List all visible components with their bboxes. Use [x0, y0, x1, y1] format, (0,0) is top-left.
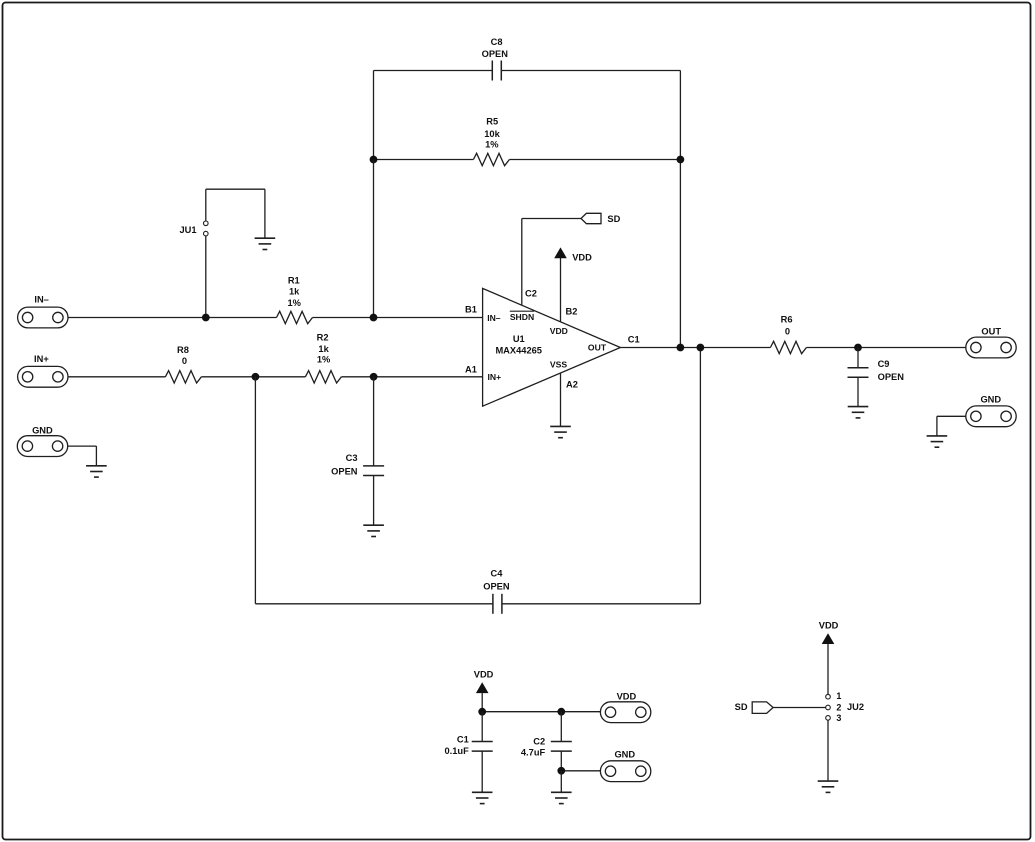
wire feedback right vertical: [679, 71, 681, 348]
resistor R8: [165, 345, 201, 383]
svg-text:A2: A2: [566, 379, 578, 389]
wire JU1 to IN- net: [205, 236, 207, 318]
wire C4 bottom left segment: [255, 603, 493, 605]
pin A1 label: [465, 365, 477, 375]
svg-text:R1: R1: [288, 276, 300, 286]
wire VDD arrow to rail: [481, 693, 483, 712]
power VDD op-amp: [554, 247, 592, 262]
wire R1 to op-amp IN-: [313, 317, 483, 319]
jumper JU2 pin 2: [826, 702, 842, 712]
connector OUT: [966, 327, 1016, 358]
wire IN- to R1: [68, 317, 277, 319]
ground JU2: [818, 781, 839, 792]
jumper JU1 pin 1: [204, 189, 209, 225]
flag SD (JU2): [735, 702, 773, 714]
svg-text:C4: C4: [491, 569, 504, 579]
svg-text:2: 2: [836, 702, 841, 712]
svg-text:A1: A1: [465, 365, 477, 375]
svg-text:10k: 10k: [484, 129, 500, 139]
wire VDD to JU2 pin 1: [827, 644, 829, 694]
node junction R5 right: [677, 156, 685, 164]
pin A2 label: [566, 379, 578, 389]
connector IN-: [18, 295, 68, 328]
svg-text:C1: C1: [628, 334, 640, 344]
connector VDD: [600, 692, 650, 723]
svg-text:JU1: JU1: [179, 225, 196, 235]
svg-text:R2: R2: [317, 333, 329, 343]
svg-text:OUT: OUT: [588, 343, 607, 353]
wire rail to C1: [481, 712, 483, 742]
wire OUT to C9: [857, 348, 859, 368]
node junction C2/rail: [557, 708, 565, 716]
svg-text:GND: GND: [32, 426, 53, 436]
pin B1 label: [465, 304, 477, 314]
wire R8 to R2: [201, 376, 305, 378]
capacitor C1: [445, 735, 493, 757]
svg-text:R6: R6: [781, 314, 793, 324]
svg-text:IN–: IN–: [487, 313, 501, 323]
svg-text:JU2: JU2: [847, 702, 864, 712]
flag SD (SHDN): [581, 213, 621, 224]
svg-text:0.1uF: 0.1uF: [445, 746, 470, 756]
connector GND (output side): [966, 394, 1016, 426]
wire VDD pin B2: [560, 258, 562, 322]
node junction R8/C4: [252, 373, 260, 381]
wire VSS pin A2: [560, 373, 562, 426]
wire C8 top left segment: [374, 70, 493, 72]
connector GND (input side): [17, 426, 67, 457]
wire R5 right lead: [509, 159, 680, 161]
ground output GND: [927, 436, 948, 447]
node junction JU1/IN-: [202, 314, 210, 322]
svg-text:4.7uF: 4.7uF: [521, 748, 546, 758]
svg-text:C9: C9: [878, 359, 890, 369]
wire C4 left vertical: [254, 377, 256, 604]
node junction C4/OUT: [697, 344, 705, 352]
svg-text:SHDN: SHDN: [510, 312, 534, 322]
node junction C3/IN+: [370, 373, 378, 381]
svg-text:VSS: VSS: [550, 359, 567, 369]
svg-text:1: 1: [836, 691, 841, 701]
wire C8 top right segment: [501, 70, 680, 72]
ground input GND: [86, 466, 107, 477]
jumper JU2 pin 1: [826, 691, 842, 701]
wire op-amp OUT to R6: [620, 347, 770, 349]
svg-text:VDD: VDD: [474, 670, 494, 680]
svg-text:SD: SD: [735, 702, 748, 712]
power VDD supply: [474, 670, 494, 693]
wire C2 to GND link: [561, 751, 600, 771]
wire C9 to ground: [857, 377, 859, 406]
svg-text:U1: U1: [513, 334, 525, 344]
svg-text:SD: SD: [607, 214, 620, 224]
svg-text:B2: B2: [566, 306, 578, 316]
pin C2 label: [525, 288, 537, 298]
capacitor C4: [483, 569, 510, 614]
resistor R5: [473, 117, 509, 166]
svg-text:0: 0: [182, 356, 187, 366]
wire JU1 top: [206, 188, 265, 190]
resistor R1: [277, 276, 313, 324]
svg-text:MAX44265: MAX44265: [495, 346, 542, 356]
svg-text:GND: GND: [614, 750, 635, 760]
wire IN+ to C3: [373, 377, 375, 466]
svg-text:IN+: IN+: [34, 354, 49, 364]
ground C9: [848, 407, 869, 418]
connector IN+: [18, 354, 68, 387]
svg-text:0: 0: [785, 326, 790, 336]
wire C4 bottom right segment: [502, 603, 701, 605]
power VDD JU2: [819, 621, 839, 645]
svg-text:C2: C2: [525, 288, 537, 298]
svg-text:1%: 1%: [287, 298, 301, 308]
svg-text:1%: 1%: [317, 355, 331, 365]
svg-text:VDD: VDD: [819, 621, 839, 631]
capacitor C3: [331, 453, 384, 477]
ground VSS: [550, 426, 571, 437]
svg-text:1k: 1k: [318, 344, 329, 354]
svg-text:1%: 1%: [485, 140, 499, 150]
wire R6 to OUT connector: [806, 347, 965, 349]
wire IN+ to R8: [68, 376, 165, 378]
connector GND (supply side): [600, 750, 650, 782]
wire feedback left vertical lower: [373, 160, 375, 318]
jumper JU2 pin 3: [826, 713, 842, 723]
resistor R6: [770, 314, 806, 353]
wire feedback left vertical upper: [373, 71, 375, 160]
svg-text:OUT: OUT: [981, 327, 1001, 337]
node junction R5 left: [370, 156, 378, 164]
wire supply rail: [482, 711, 600, 713]
wire JU2 pin 3 to ground: [827, 720, 829, 781]
ground C2: [551, 792, 572, 803]
wire GND input link: [68, 446, 97, 466]
svg-text:IN+: IN+: [487, 372, 501, 382]
capacitor C9: [848, 359, 905, 382]
ground C3: [363, 525, 384, 536]
svg-text:C3: C3: [346, 453, 358, 463]
node junction C2/GND link: [557, 767, 565, 775]
wire C3 to ground: [373, 476, 375, 526]
jumper JU1 pin 2: [179, 225, 208, 236]
capacitor C8: [482, 37, 509, 81]
svg-text:IN–: IN–: [34, 295, 48, 305]
svg-text:OPEN: OPEN: [483, 582, 510, 592]
svg-text:B1: B1: [465, 304, 477, 314]
node junction C9/OUT: [854, 344, 862, 352]
wire R2 to op-amp IN+: [341, 376, 482, 378]
svg-text:C8: C8: [491, 37, 503, 47]
wire GND connector link: [937, 416, 966, 436]
svg-text:C2: C2: [533, 737, 545, 747]
wire rail to C2: [560, 712, 562, 742]
resistor R2: [305, 333, 341, 383]
svg-text:VDD: VDD: [617, 692, 637, 702]
capacitor C2: [521, 737, 572, 758]
svg-text:OPEN: OPEN: [331, 467, 358, 477]
svg-text:3: 3: [836, 713, 841, 723]
svg-text:R5: R5: [486, 117, 498, 127]
node junction feedback/OUT: [677, 344, 685, 352]
pin C1 label: [628, 334, 640, 344]
wire SD to JU2 pin 2: [773, 707, 826, 709]
ground C1: [472, 792, 493, 803]
svg-text:OPEN: OPEN: [482, 49, 509, 59]
svg-text:C1: C1: [457, 735, 469, 745]
node junction feedback/IN-: [370, 314, 378, 322]
label JU2: [847, 702, 864, 712]
svg-text:OPEN: OPEN: [878, 372, 905, 382]
op-amp U1 MAX44265: [483, 288, 621, 406]
svg-text:1k: 1k: [289, 287, 300, 297]
wire C4 right vertical: [699, 348, 701, 604]
wire SHDN pin C2: [522, 219, 581, 306]
ground JU1: [255, 238, 276, 249]
pin B2 label: [566, 306, 578, 316]
svg-text:R8: R8: [177, 345, 189, 355]
wire R5 left lead: [374, 159, 474, 161]
svg-text:VDD: VDD: [572, 252, 592, 262]
wire C1 to ground: [481, 751, 483, 792]
svg-text:GND: GND: [980, 394, 1001, 404]
node junction C1/rail: [478, 708, 486, 716]
svg-text:VDD: VDD: [550, 326, 568, 336]
wire JU1 ground drop: [264, 189, 266, 238]
wire C2 to ground: [560, 771, 562, 793]
